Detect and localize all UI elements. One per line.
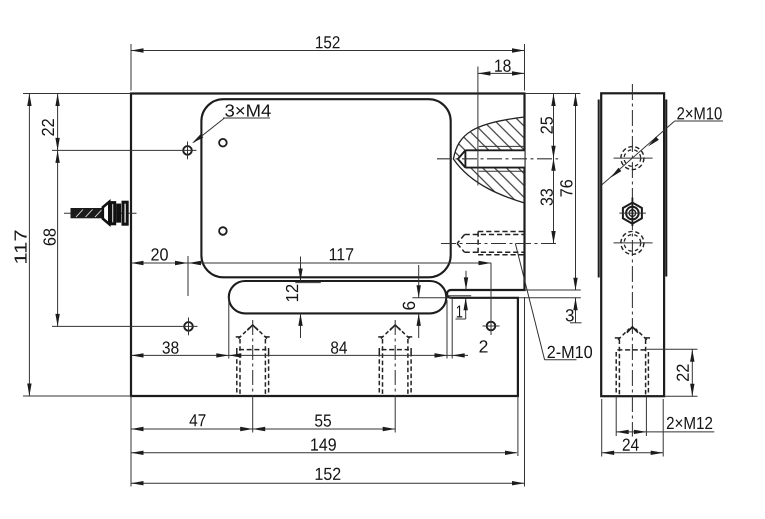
pocket hole upper [219,139,227,147]
dim 12 [300,257,302,282]
M4 hole bottom-right [483,322,500,331]
dim 117 left [23,93,131,95]
upper M10 hole circles [614,147,653,170]
dim text 84 [331,341,347,353]
M4 hole bottom-left [184,318,193,336]
dim text 25 [540,117,552,134]
dim text 1 [457,305,463,317]
dim text 22 right [677,364,689,381]
dim 152 bottom [130,396,132,487]
dim text 55 [315,415,331,427]
M12 hidden hole bottom-right [378,320,412,433]
dim text 152 top [316,36,340,48]
dim 76 [525,93,581,95]
dim 22 right view [646,348,697,350]
flexure slit lines [412,290,580,298]
dim 6 [418,265,420,298]
dims 38 84 2 [228,298,230,359]
label 3xM4 [225,104,271,116]
pocket hole lower [219,227,227,235]
label 2-M10 [548,346,593,358]
dim text 76 [560,180,572,197]
dim text 149 [311,438,336,450]
dim text 24 [623,438,639,450]
dim text 117 pocket [330,248,354,260]
dim 152 top [130,44,132,91]
dim text 68 [43,229,55,246]
dim 18 [477,67,479,186]
leader 2-M10 [515,243,544,360]
leader 3xM4 [223,117,270,119]
arrowheads [27,48,694,485]
sectioned M10 hole (upper right) [458,146,525,171]
dim text 33 [540,189,552,206]
break-out section blob with hatching [453,117,524,203]
dims 25 and 33 [553,94,555,244]
dim text 3 [566,309,574,321]
dim 24 [601,399,603,457]
dim text 38 [163,341,179,353]
lower M10 hole circles [614,231,653,254]
dim text 47 [190,414,206,426]
dim text 20 [151,248,168,260]
side view vertical centerline [631,84,633,437]
label 2xM12 [667,417,712,429]
hex nut feature [619,198,646,227]
leader 2xM10 [602,121,675,185]
dim text 6 [403,302,415,310]
label 2xM10 [677,107,721,119]
dim text 18 [495,59,511,71]
pocket rounded rectangle [201,99,450,277]
side plate edge left [598,100,600,278]
dims 22 and 68 [52,149,197,151]
M12 hidden hole side view bottom [615,327,650,396]
dims 47 55 [131,428,395,430]
dim 1 [465,271,467,290]
dim 149 [517,396,519,456]
side plate edge right [665,100,667,277]
side view outline [601,93,664,396]
centerline of sectioned hole [437,158,558,160]
dim 3 [575,298,577,323]
cable gland assembly [64,202,137,224]
dims 20 and 117 pocket [131,262,491,264]
main body outline (front view) [131,94,525,397]
dim text 117 left [15,230,27,263]
dim text 2 [480,340,488,352]
centerline of hidden M10 hole [441,243,558,245]
dim text 152 bottom [316,468,341,480]
dim text 12 [286,285,298,302]
hidden M10 hole (lower right, dashed) [457,232,524,255]
dim M12 dia [615,396,617,436]
M12 hidden hole bottom-left [236,320,270,433]
M4 hole top-left [183,142,192,160]
dim text 22 left [42,119,54,135]
slot rounded rectangle [229,281,446,313]
